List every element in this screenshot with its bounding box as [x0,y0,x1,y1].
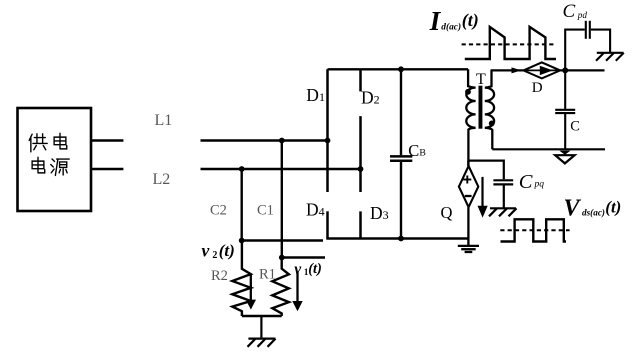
waveform Vds [501,219,567,241]
wire Q to Cpq [468,161,503,180]
resistor R2 [232,241,251,317]
svg-text:D3: D3 [370,203,389,223]
svg-text:C2: C2 [210,203,227,219]
node junction CB bottom [398,236,404,242]
diode D2 branch [359,69,362,91]
transformer primary polarity dot [465,89,471,95]
capacitor Cpd loop [565,21,610,71]
wire v2 rail [242,239,323,241]
wire secondary to diode [491,69,524,71]
waveform Id dashed line [462,43,555,45]
ground arrow at output [555,151,574,164]
svg-text:I: I [429,6,442,36]
svg-text:C: C [519,171,533,193]
power supply box [18,108,92,211]
diode D input arrow [512,67,522,73]
arrow v2 [246,274,256,310]
svg-text:CB: CB [408,141,425,160]
wire diode output [560,69,604,71]
diode D1 branch [326,69,329,192]
node junction L2-C2 [239,166,245,172]
svg-text:Q: Q [441,203,453,222]
source Q diamond [459,166,478,207]
arrow drain current [478,177,488,218]
svg-text:L1: L1 [155,112,173,129]
capacitor C [555,70,575,149]
svg-text:D2: D2 [361,87,380,107]
wire bridge bottom rail [326,237,468,239]
capacitor C1 wire [281,141,283,258]
svg-text:C1: C1 [257,203,274,219]
waveform Vds dashed line [500,229,569,231]
svg-text:pd: pd [577,10,588,20]
svg-text:D: D [532,80,543,96]
waveform Id [465,27,556,59]
capacitor CB [390,69,412,238]
transformer secondary polarity dot [489,121,495,127]
node junction L2-bridge [358,166,364,172]
svg-text:d(ac): d(ac) [441,22,461,33]
chassis ground Cpd [596,53,624,61]
resistor R1 [272,258,289,317]
svg-text:D1: D1 [306,85,325,105]
chassis ground below resistors [248,316,276,347]
svg-text:C: C [570,119,580,135]
wire resistor bottom rail [242,315,282,317]
svg-text:v: v [202,240,210,260]
wire L2 [201,168,361,170]
wire bridge top rail [328,68,469,70]
chassis ground Cpq [489,208,517,216]
svg-text:v: v [294,261,302,278]
source Q top lead [467,161,469,167]
node junction CB top [398,66,404,72]
transformer T core [479,86,483,129]
wire L1 stub [91,139,123,141]
svg-text:C: C [563,1,576,22]
svg-text:(t): (t) [219,241,235,260]
svg-text:ds(ac): ds(ac) [582,207,605,217]
power supply label 供电 [29,133,67,151]
svg-text:2: 2 [212,250,217,261]
svg-text:(t): (t) [605,197,621,216]
node junction L1-bridge [325,138,331,144]
capacitor Cpq [493,180,513,208]
svg-text:L2: L2 [153,171,171,188]
source Q bottom lead [467,207,469,245]
node junction diode output [562,67,568,73]
diode D3 branch [359,211,362,238]
node junction v2 [239,238,245,244]
svg-text:(t): (t) [462,10,479,31]
capacitor C2 wire [240,169,242,241]
svg-text:R1: R1 [259,267,276,283]
node junction L1-C1 [279,138,285,144]
svg-text:R2: R2 [211,268,228,284]
svg-text:(t): (t) [308,261,322,277]
diode D diamond [523,62,560,78]
diode D4 branch [326,211,329,238]
transformer T primary winding [466,69,475,166]
wire v1 rail [282,256,325,258]
earth ground at bridge [458,246,479,252]
wire L1 [201,139,328,141]
power supply label 电源 [32,157,69,175]
diode D2 lower segment [359,116,362,192]
arrow v1 [292,272,302,312]
svg-text:T: T [476,71,486,88]
wire L2 stub [91,168,123,170]
svg-text:pq: pq [534,179,545,190]
svg-text:V: V [564,196,582,222]
node junction v1 [279,255,285,261]
wire secondary return [492,148,605,150]
transformer T secondary winding [485,70,494,149]
svg-text:D4: D4 [306,200,325,220]
